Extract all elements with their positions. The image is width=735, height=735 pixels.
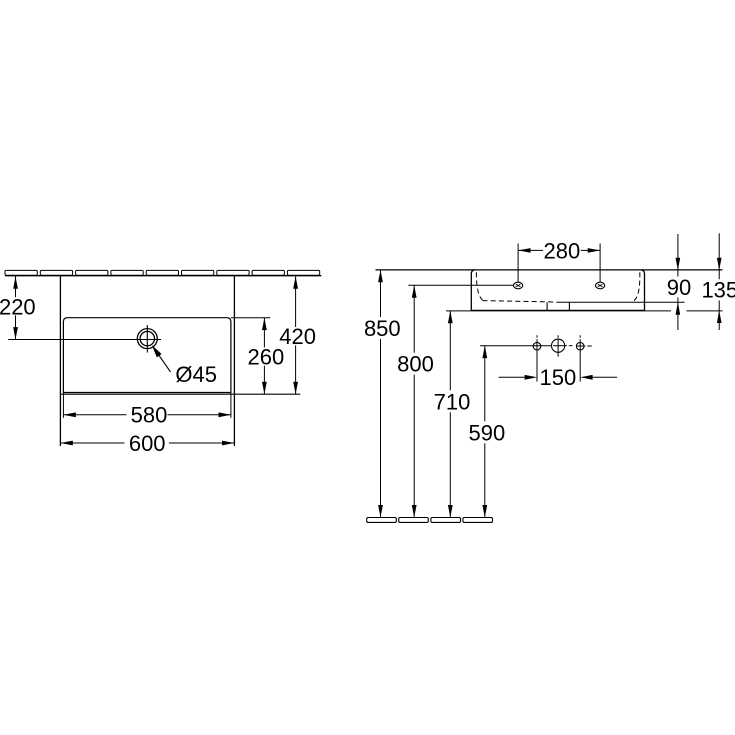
svg-text:420: 420 (279, 324, 316, 349)
svg-text:600: 600 (129, 431, 166, 456)
svg-text:580: 580 (131, 403, 168, 428)
svg-text:90: 90 (667, 275, 691, 300)
svg-text:850: 850 (364, 316, 401, 341)
svg-text:220: 220 (0, 294, 36, 319)
svg-text:Ø45: Ø45 (175, 362, 217, 387)
svg-text:280: 280 (544, 239, 581, 264)
svg-text:800: 800 (397, 352, 434, 377)
svg-text:135: 135 (701, 278, 735, 303)
svg-text:150: 150 (540, 365, 577, 390)
svg-text:710: 710 (434, 389, 471, 414)
svg-text:590: 590 (469, 420, 506, 445)
